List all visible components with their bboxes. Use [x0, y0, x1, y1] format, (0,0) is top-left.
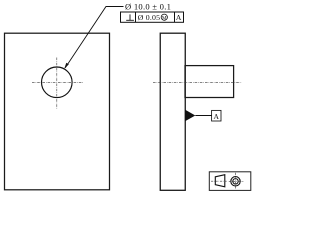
svg-text:Ø 0.05: Ø 0.05 — [138, 13, 160, 22]
svg-text:A: A — [176, 13, 182, 22]
svg-text:A: A — [214, 112, 220, 121]
svg-text:M: M — [162, 15, 167, 21]
svg-text:Ø 10.0 ± 0.1: Ø 10.0 ± 0.1 — [125, 1, 171, 11]
